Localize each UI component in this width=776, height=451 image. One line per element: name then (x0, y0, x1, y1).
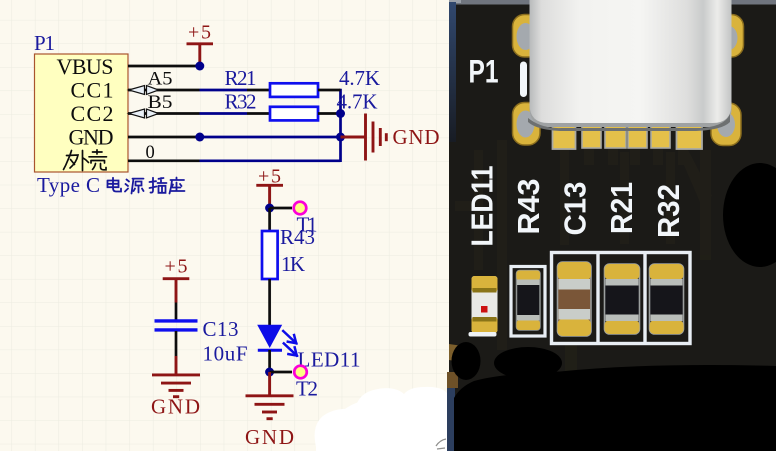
glyph 插 (150, 178, 167, 193)
svg-text:T2: T2 (296, 377, 318, 401)
svg-text:GND: GND (69, 125, 114, 150)
connector P1 mounting pad top-left (513, 15, 541, 58)
glyph 座 (170, 178, 185, 194)
testpoint T2 pad (294, 366, 307, 379)
pin GND (128, 136, 200, 139)
component LED11 (SMD LED) (469, 276, 498, 337)
wire net shell row (200, 159, 341, 162)
tan patch bottom-left (449, 344, 463, 362)
resistor R43 (268, 208, 271, 231)
svg-text:CC2: CC2 (71, 101, 114, 126)
svg-text:10uF: 10uF (203, 341, 248, 365)
svg-text:LED11: LED11 (298, 347, 361, 371)
wire to testpoint T2 (270, 371, 292, 374)
wire LED to T2 junction (268, 350, 271, 372)
svg-text:GND: GND (245, 425, 294, 449)
connector body bottom shadow (530, 104, 732, 127)
pin 外壳 (shell) (128, 159, 200, 162)
junction +5/R43/T1 (265, 204, 274, 213)
resistor R21 (247, 89, 270, 92)
junction GND row left (195, 133, 204, 142)
connector P1 mounting pad bottom-right (711, 103, 741, 146)
pin CC2 I/O arrows (129, 109, 145, 118)
footprint outline R43 (511, 267, 545, 337)
glyph 源 (125, 179, 144, 194)
pin CC2 (128, 112, 200, 115)
connector P1 mounting pad top-right (714, 15, 744, 58)
resistor R32 (247, 112, 270, 115)
dark blob bottom mid (494, 347, 562, 379)
wire net CC2 (200, 112, 248, 115)
svg-text:R32: R32 (225, 90, 257, 114)
ground GND (C13 branch) (175, 356, 178, 374)
LED LED11 (257, 325, 282, 348)
board substrate (449, 0, 776, 451)
svg-text:R21: R21 (604, 182, 639, 234)
dark blob bottom mega (454, 365, 776, 451)
silkscreen bar by P1 (520, 62, 527, 98)
svg-text:R43: R43 (511, 179, 546, 235)
copper trace hints (455, 140, 712, 375)
wire to testpoint T1 (270, 207, 292, 210)
svg-text:1K: 1K (281, 252, 305, 276)
svg-text:R21: R21 (225, 66, 257, 90)
board left edge (bottom) (447, 386, 455, 451)
junction VBUS/+5 (195, 62, 204, 71)
component C13 (chip capacitor) (558, 262, 592, 336)
capacitor C13 (175, 303, 178, 321)
svg-text:A5: A5 (148, 70, 173, 90)
connector P1 shell body (530, 0, 732, 127)
svg-text:P1: P1 (469, 54, 499, 90)
junction LED/T2/GND (265, 368, 274, 377)
PCB photo region (447, 0, 776, 451)
footprint outline C13/R21/R32 (3-cell box) (552, 253, 691, 344)
wire net GND row (200, 136, 341, 139)
connector P1 mounting pad bottom-left (513, 103, 541, 146)
board top edge (449, 0, 776, 5)
svg-text:CC1: CC1 (71, 78, 114, 103)
component R32 (chip resistor) (650, 264, 684, 334)
svg-text:GND: GND (393, 125, 440, 149)
component R43 (chip resistor) (517, 271, 541, 331)
junction R32/bus (336, 109, 345, 118)
connector P1 pin pads row (553, 126, 703, 149)
svg-text:P1: P1 (34, 31, 55, 55)
schematic sheet background (0, 0, 460, 451)
wire vertical bus right (339, 89, 342, 162)
component R21 (chip resistor) (605, 264, 640, 334)
dark blob right edge (723, 163, 776, 267)
svg-text:R43: R43 (280, 225, 315, 249)
testpoint T1 pad (294, 202, 307, 215)
svg-text:C13: C13 (203, 317, 239, 341)
ground GND (LED branch) (268, 372, 271, 395)
svg-text:LED11: LED11 (465, 166, 500, 247)
junction GND/bus (336, 133, 345, 142)
dark blob bottom left (452, 342, 481, 380)
svg-text:Type C: Type C (37, 173, 100, 197)
pin VBUS (128, 65, 200, 68)
svg-text:B5: B5 (148, 93, 173, 113)
white blob overlay (bottom center) (315, 387, 449, 451)
board left edge (top) (449, 2, 456, 142)
ground GND (right, rotated) (341, 136, 365, 139)
glyph 电 (108, 178, 122, 192)
pin name 外壳 glyphs (64, 150, 107, 171)
svg-text:C13: C13 (558, 182, 593, 236)
pin CC1 (128, 89, 200, 92)
pin CC1 I/O arrows (129, 86, 145, 95)
connector P1 body (35, 54, 129, 172)
svg-text:4.7K: 4.7K (339, 66, 380, 90)
svg-text:VBUS: VBUS (57, 54, 114, 79)
faint gray mark bottom left of PCB edge (436, 439, 446, 449)
svg-text:0: 0 (146, 143, 155, 163)
svg-text:R32: R32 (651, 184, 686, 238)
svg-text:GND: GND (151, 395, 200, 419)
wire net CC1 (200, 89, 248, 92)
